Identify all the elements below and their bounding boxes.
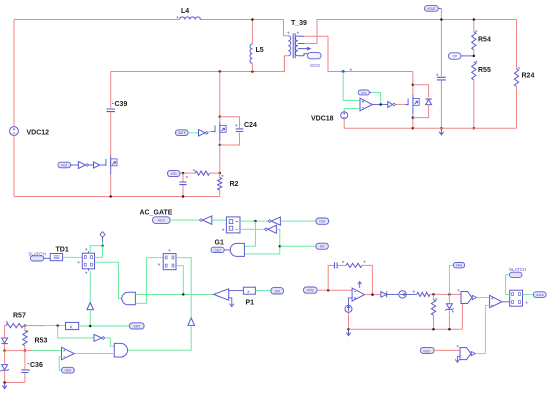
transformer T_39 (284, 20, 311, 72)
buffer U2 (199, 130, 206, 137)
svg-text:VDC12: VDC12 (27, 130, 50, 137)
zener D4 (0, 351, 8, 383)
junction (251, 18, 254, 21)
wire gate red (209, 131, 212, 133)
op-amp P1 (214, 289, 255, 307)
capacitor C24 loop (220, 117, 257, 145)
junction node A (342, 70, 345, 73)
gate signal source pill (58, 162, 71, 168)
svg-text:VDC18: VDC18 (311, 116, 334, 123)
junction (89, 325, 92, 328)
capacitor C below VS (179, 173, 188, 196)
junction (24, 349, 27, 352)
svg-text:T_39: T_39 (291, 20, 307, 27)
buffer up U10 (188, 318, 195, 326)
junction (101, 244, 104, 247)
pill SAT (130, 323, 145, 329)
pill TP (449, 53, 474, 59)
wire block out2 (240, 228, 264, 230)
wire VSO to comp3 (434, 349, 460, 351)
svg-text:IS2: IS2 (320, 245, 325, 249)
pill VEA (62, 367, 75, 373)
capacitor C36 (21, 351, 43, 383)
pill ISO (316, 218, 329, 224)
diode D2 loop (413, 85, 432, 118)
svg-text:GATE: GATE (536, 293, 544, 297)
resistor R59 vertical (431, 294, 437, 329)
pill GATE (176, 130, 189, 136)
svg-text:G1: G1 (215, 240, 224, 247)
junction (448, 293, 451, 296)
junction (56, 324, 59, 327)
isolation block U6 (222, 217, 240, 233)
diode D5 (381, 291, 387, 297)
svg-text:ISO: ISO (319, 220, 325, 224)
pill SLATCH (28, 251, 50, 261)
transistor M2 (212, 122, 226, 141)
wire M2 drain (219, 117, 221, 123)
source VDC12 (10, 127, 50, 137)
buffer up U9 (87, 303, 94, 310)
junction (219, 70, 222, 73)
op-amp U3 (360, 98, 372, 111)
diode D3 (1, 326, 7, 351)
wire to R2 junction (219, 145, 221, 173)
pill 100 (271, 288, 284, 294)
wire FF1 qbar to AND2 out (95, 262, 123, 298)
wire (170, 219, 199, 221)
junction (412, 84, 415, 87)
inductor L5 (250, 20, 264, 72)
ground (439, 129, 443, 135)
pill VAU (358, 90, 371, 95)
wire comp to AND3 in2 (74, 353, 114, 355)
svg-text:ACG: ACG (158, 219, 166, 223)
wire opamp plus to isrc (349, 298, 353, 306)
wire green from node A (343, 72, 360, 101)
junction (473, 18, 476, 21)
svg-text:SLATCH: SLATCH (509, 267, 526, 272)
wire gate green (188, 132, 198, 134)
wire isrc down (348, 312, 350, 329)
wire (212, 219, 227, 221)
gate AND2 (122, 292, 136, 305)
wire VFB to opamp (317, 289, 352, 291)
wire C39 column upper (110, 72, 112, 108)
wire P1 down arrow (229, 298, 234, 307)
wire FF2 q down (176, 258, 191, 318)
svg-text:TP: TP (452, 55, 457, 59)
svg-text:L4: L4 (181, 8, 189, 15)
resistor R58 horizontal (406, 291, 461, 297)
wire VDC18 bottom (344, 119, 413, 129)
junction (251, 70, 254, 73)
flipflop FF1 (78, 248, 95, 273)
wire bottom rail left (14, 196, 220, 198)
wire comp3 out up (476, 353, 486, 355)
wire FF3 to SLATCH2 (506, 275, 510, 295)
svg-text:AC_GATE: AC_GATE (140, 210, 173, 217)
wire VDC18 top green (344, 109, 360, 112)
transistor M4 (405, 95, 419, 114)
wire G1 out (224, 249, 230, 251)
svg-text:SCO: SCO (310, 63, 320, 68)
svg-text:VEA: VEA (456, 264, 463, 268)
pill VS (168, 170, 180, 176)
wire diode to sensor (387, 293, 399, 295)
resistor R3 horizontal (193, 169, 220, 175)
wire FF3 to GATE2 (523, 294, 534, 296)
wire TD1 to FF1 (63, 256, 83, 258)
junction (3, 349, 6, 352)
node diamond (100, 232, 105, 242)
block TD1 (50, 247, 69, 261)
wire to ISO pill (280, 220, 316, 222)
wire mid horizontal y72 (111, 56, 285, 72)
sensor SCO (308, 53, 322, 68)
junction (219, 115, 222, 118)
junction (279, 245, 282, 248)
junction (412, 127, 415, 130)
junction (182, 172, 185, 175)
junction (473, 55, 476, 58)
wire FF2 qbar junction (176, 266, 183, 295)
svg-text:VS1: VS1 (170, 172, 177, 176)
wire to M4 gate (396, 104, 406, 106)
wire comp input row (5, 350, 32, 352)
wire junction to IS2 pill (280, 245, 316, 247)
junction (254, 220, 257, 223)
pill IS2 (316, 243, 328, 249)
junction (412, 116, 415, 119)
wire triangle to AND3 out (128, 325, 192, 350)
svg-text:100: 100 (274, 289, 280, 293)
wire VS junction (180, 172, 195, 174)
wire secondary top to y71.5 rail (304, 36, 413, 71)
wire analog bottom rail (349, 328, 463, 330)
gate G1 (215, 240, 245, 257)
svg-text:C24: C24 (244, 122, 257, 129)
junction (182, 195, 185, 198)
svg-text:VEA: VEA (65, 369, 73, 373)
junction (218, 172, 221, 175)
wire M1 source down (110, 174, 112, 196)
flipflop FF2 (158, 249, 176, 269)
junction (440, 18, 443, 21)
svg-text:VOUT: VOUT (427, 7, 436, 11)
svg-text:VSO: VSO (423, 349, 431, 353)
wire left rail (13, 20, 15, 127)
wire Cout column (440, 8, 442, 76)
junction (3, 381, 6, 384)
pill VSO (421, 347, 435, 353)
svg-text:GS2: GS2 (214, 248, 221, 252)
ground (2, 383, 6, 389)
wire block out1 (240, 220, 268, 222)
wire (89, 164, 94, 166)
wire opamp out (365, 294, 381, 296)
wire inv to AND3 (105, 338, 115, 346)
junction (432, 328, 435, 331)
wire AND2 in1 long (135, 293, 213, 295)
wire FF1 q to junction (95, 246, 103, 258)
resistor R54 (472, 20, 491, 56)
comparator U15 (490, 295, 502, 307)
junction (379, 103, 382, 106)
wire comp2 out (502, 301, 510, 303)
op-amp U13 (352, 282, 364, 302)
comparator U16 (457, 345, 476, 360)
wire R57 to K (24, 325, 46, 327)
svg-text:VFB: VFB (307, 289, 314, 293)
pill SLATCH2 (509, 267, 526, 277)
junction (440, 127, 443, 130)
junction (327, 289, 330, 292)
wire (100, 164, 103, 166)
wire P1 to X (229, 290, 244, 292)
wire bottom (5, 382, 25, 384)
pill VEA2 (453, 263, 464, 268)
pill GATE2 (534, 292, 547, 298)
wire comp1 out (477, 297, 490, 299)
junction (473, 127, 476, 130)
svg-text:TD1: TD1 (56, 247, 69, 254)
wire opamp output (372, 104, 387, 106)
block X (243, 287, 255, 294)
wire C39 to M1 (110, 112, 112, 156)
feedback loop (328, 261, 372, 295)
junction (109, 195, 112, 198)
inverter U7 (271, 217, 280, 225)
wire M2 column top (219, 72, 221, 117)
svg-text:VAU: VAU (361, 91, 368, 95)
svg-text:R54: R54 (478, 37, 491, 44)
svg-text:L5: L5 (256, 47, 264, 54)
capacitor Cout (436, 74, 446, 80)
resistor R2 (218, 173, 239, 196)
wire junction to FF1 top (90, 246, 102, 254)
source VDC18 (311, 112, 348, 123)
comp3 ground (455, 357, 460, 363)
ground (346, 330, 350, 336)
wire secondary mid to top rail right (304, 20, 517, 44)
inverter U8 (268, 225, 277, 233)
wire VEA2 up (449, 265, 453, 294)
wire FF1 bottom to triangle (89, 271, 91, 302)
svg-text:R2: R2 (230, 181, 239, 188)
wire g1 input1 (244, 221, 255, 246)
inverter U5 (203, 216, 212, 224)
source I1 (345, 305, 352, 312)
junction (347, 328, 350, 331)
pill VFB (304, 287, 318, 293)
wire K to SAT (79, 325, 130, 327)
wire comp2 lower input (485, 306, 489, 354)
resistor R53 (23, 326, 48, 351)
pill G1 out (211, 247, 224, 252)
svg-text:GATE: GATE (178, 131, 186, 135)
junction (182, 293, 185, 296)
wire diamond net (102, 242, 104, 246)
svg-text:R24: R24 (522, 73, 535, 80)
resistor R24 (514, 20, 534, 129)
wire K branch down (58, 326, 94, 338)
wire Cout bottom (440, 81, 442, 129)
svg-text:P1: P1 (246, 300, 255, 307)
comparator U14 (457, 289, 476, 303)
wire AND2 in2 to FF2 (135, 258, 163, 304)
pill VOUT (425, 6, 442, 12)
junction (219, 144, 222, 147)
block K (66, 322, 79, 330)
wire (71, 164, 79, 166)
wire R57 left (5, 325, 6, 327)
svg-text:R55: R55 (478, 67, 491, 74)
buffer U1a (78, 162, 85, 169)
transistor M1 (103, 156, 117, 175)
svg-text:VG1: VG1 (61, 164, 68, 168)
svg-text:SAT: SAT (133, 324, 141, 328)
junction (432, 293, 435, 296)
buffer U1b (94, 162, 100, 168)
wire M2 source down (219, 141, 221, 145)
resistor R55 (472, 61, 491, 129)
zener D6 (445, 294, 454, 329)
inductor L4 (176, 8, 200, 20)
junction (371, 293, 374, 296)
wire inv2 to junction (244, 229, 279, 254)
pill AC_GATE (153, 217, 171, 224)
inverter U11 (94, 334, 102, 341)
wire top rail left (14, 19, 179, 21)
svg-text:C39: C39 (115, 101, 128, 108)
flipflop FF3 (510, 290, 528, 306)
wire triangle to K net (89, 310, 91, 327)
gate AND3 (114, 343, 127, 357)
svg-text:R57: R57 (13, 313, 26, 320)
wire comp minus to VEA (59, 357, 61, 371)
svg-text:R53: R53 (35, 338, 48, 345)
capacitor C39 (107, 101, 128, 112)
wire X to pill (255, 290, 271, 292)
sensor S1 (399, 291, 406, 298)
resistor R57 (6, 313, 26, 328)
junction (24, 324, 27, 327)
comparator U12 (62, 347, 75, 359)
svg-text:C36: C36 (30, 362, 43, 369)
junction (448, 328, 451, 331)
buffer U4 (388, 102, 393, 108)
wire M4 rail (412, 72, 414, 96)
wire VAU to output (372, 92, 381, 104)
wire output bottom rail (413, 127, 517, 129)
wire rail up to comp1 (461, 302, 462, 330)
